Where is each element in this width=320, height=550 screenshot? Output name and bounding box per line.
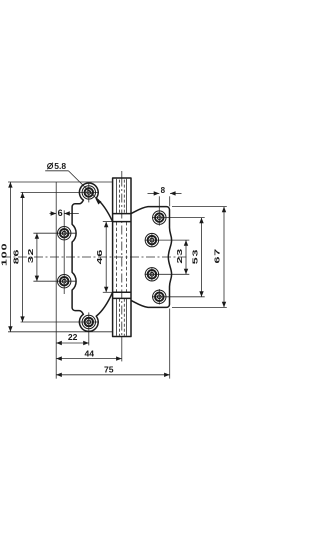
- svg-text:6: 6: [58, 208, 63, 218]
- svg-text:67: 67: [214, 248, 222, 264]
- svg-text:23: 23: [176, 248, 184, 264]
- svg-text:100: 100: [0, 243, 8, 266]
- svg-text:44: 44: [85, 349, 95, 359]
- svg-text:46: 46: [96, 249, 104, 265]
- svg-text:5.8: 5.8: [54, 161, 66, 171]
- svg-text:75: 75: [104, 365, 114, 375]
- svg-text:32: 32: [27, 248, 35, 264]
- svg-text:8: 8: [161, 186, 166, 195]
- svg-text:53: 53: [192, 249, 200, 265]
- svg-text:22: 22: [68, 332, 78, 342]
- svg-text:86: 86: [13, 249, 21, 265]
